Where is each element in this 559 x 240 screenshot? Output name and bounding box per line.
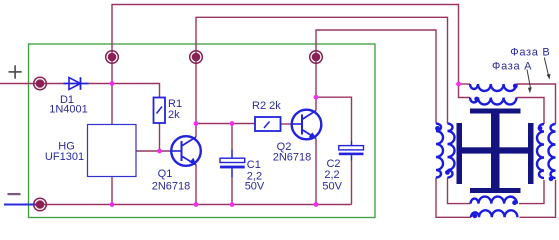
junction Q2 emitter on rail bbox=[314, 202, 319, 207]
wire: feed to top coil row1 bbox=[459, 83, 471, 85]
svg-text:Фаза A: Фаза A bbox=[492, 60, 532, 72]
junction Q1 emitter on rail bbox=[194, 202, 199, 207]
polarity dot right col1 bbox=[538, 126, 543, 131]
diode D1 bbox=[64, 77, 89, 90]
svg-text:50V: 50V bbox=[322, 180, 342, 192]
svg-text:1N4001: 1N4001 bbox=[49, 104, 88, 116]
sheet border (green box) bbox=[29, 44, 376, 218]
minus terminal symbol bbox=[8, 193, 21, 195]
junction C1 top node bbox=[230, 121, 235, 126]
junction Q1 collector node bbox=[194, 121, 199, 126]
transformer core cross bbox=[457, 109, 534, 194]
wire: Q1 emitter to bottom rail bbox=[195, 165, 197, 205]
wire: R1 bottom to base node bbox=[159, 123, 161, 151]
wire: top row2 out to phase A vertical bbox=[517, 98, 545, 125]
svg-text:C1: C1 bbox=[247, 159, 261, 171]
pad node 3 bbox=[310, 51, 323, 64]
svg-text:2,2: 2,2 bbox=[324, 169, 339, 181]
wire: pad3 up and top rail 3 to left coil col1 bbox=[316, 30, 436, 124]
wire: bottom rail bbox=[40, 204, 352, 206]
arrow A bbox=[527, 70, 532, 94]
junction C1 bottom on rail bbox=[230, 202, 235, 207]
wire: pad3 vertical to Q2 collector bbox=[315, 57, 317, 111]
svg-text:R2 2k: R2 2k bbox=[252, 100, 281, 112]
pad + terminal bbox=[34, 77, 47, 90]
wire: Q2 emitter to bottom rail bbox=[315, 139, 317, 205]
transistor Q1 bbox=[171, 136, 201, 166]
wire: minus lead (blue stub) bbox=[4, 204, 40, 206]
winding: bottom row1 bbox=[471, 197, 517, 204]
capacitor C2 bbox=[339, 141, 364, 161]
wire: pad2 up and top rail 2 to left coil col2 bbox=[196, 17, 448, 123]
junction R1 bottom / Q1 base bbox=[157, 149, 162, 154]
junction Q2 collector node bbox=[314, 95, 319, 100]
polarity dot bottom row2 bbox=[472, 213, 477, 218]
transistor Q2 bbox=[292, 110, 322, 140]
winding: bottom row2 bbox=[471, 210, 517, 217]
junction transformer feed node bbox=[456, 82, 461, 87]
wire: feed to top coil row2 bbox=[459, 84, 471, 98]
capacitor C1 bbox=[220, 150, 245, 178]
winding: right col1 bbox=[537, 124, 544, 178]
junction diode output node bbox=[110, 81, 115, 86]
pad node 2 bbox=[190, 51, 203, 64]
wire: C2 bottom to rail bbox=[351, 161, 353, 205]
wire: phase A vertical lower and bottom row1 link bbox=[519, 180, 544, 204]
wire: + input lead bbox=[0, 83, 64, 85]
winding: top row2 bbox=[470, 98, 516, 105]
svg-text:UF1301: UF1301 bbox=[45, 151, 84, 163]
polarity dot bottom row1 bbox=[512, 200, 517, 205]
svg-text:2N6718: 2N6718 bbox=[273, 152, 312, 164]
svg-text:50V: 50V bbox=[245, 180, 265, 192]
polarity dot left col2 bbox=[445, 170, 450, 175]
wire: top row1 out to phase B vertical bbox=[517, 84, 556, 124]
pad - terminal bbox=[34, 198, 47, 211]
wire: left col1 bottom to bottom row2 bbox=[436, 178, 471, 218]
polarity dot top row2 bbox=[474, 97, 479, 102]
wire: HG right pin to Q1 base bbox=[136, 150, 172, 152]
wire: pad1 up and top rail 1 bbox=[112, 5, 459, 85]
polarity dot left col1 bbox=[435, 126, 440, 131]
wire: R2 right lead to Q2 base bbox=[281, 123, 293, 125]
svg-text:Фаза B: Фаза B bbox=[510, 47, 550, 59]
resistor R2 bbox=[255, 117, 281, 131]
winding: top row1 bbox=[470, 84, 516, 91]
winding: left col2 bbox=[448, 124, 455, 178]
svg-text:2k: 2k bbox=[168, 109, 180, 121]
resistor R1 bbox=[154, 98, 166, 124]
wire: C1 bottom to rail bbox=[231, 177, 233, 205]
pad node 1 bbox=[106, 51, 119, 64]
wire: C1 branch down bbox=[231, 124, 233, 150]
wire: diode output to R1 top bbox=[89, 84, 160, 98]
winding: left col1 bbox=[436, 124, 443, 178]
wire: phase B vertical lower and bottom row2 link bbox=[520, 180, 556, 217]
arrow B bbox=[544, 58, 550, 80]
junction HG bottom on rail bbox=[110, 202, 115, 207]
wire: collector node to R2 bbox=[196, 123, 256, 125]
block HG UF1301 bbox=[88, 125, 137, 177]
wire: pad2 vertical to Q1 collector bbox=[195, 57, 197, 137]
wire: left col2 bottom to bottom row1 bbox=[448, 178, 471, 204]
wire: C2 branch from collector node bbox=[316, 97, 352, 141]
wire: pad1 vertical through junction to HG top pin bbox=[111, 57, 113, 125]
plus terminal symbol bbox=[9, 65, 22, 78]
wire: HG bottom pin bbox=[111, 177, 113, 205]
svg-text:Q1: Q1 bbox=[158, 168, 173, 180]
polarity dot top row1 bbox=[513, 84, 518, 89]
winding: right col2 bbox=[549, 124, 556, 178]
polarity dot right col2 bbox=[549, 176, 554, 181]
svg-text:2N6718: 2N6718 bbox=[152, 181, 191, 193]
